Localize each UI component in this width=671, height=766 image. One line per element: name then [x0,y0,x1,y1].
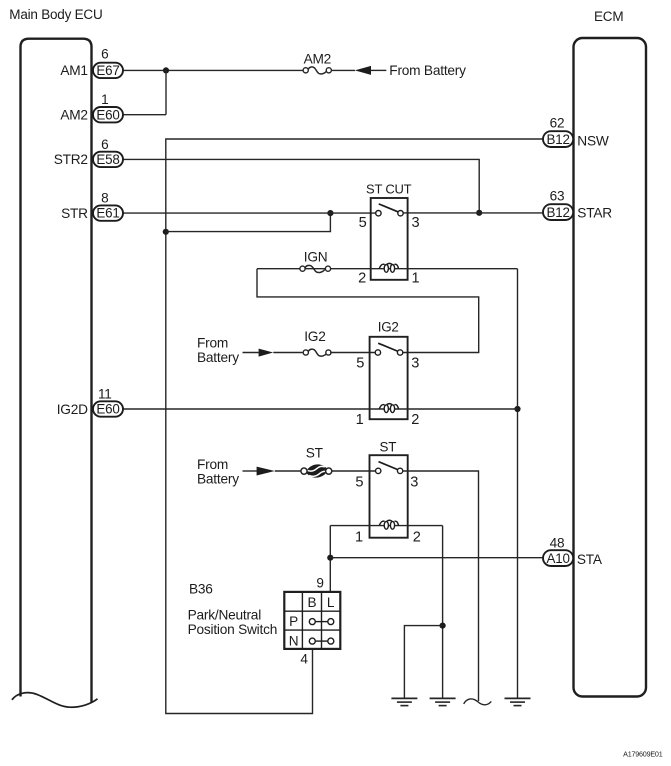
wire arrow to ST fusible link [275,470,301,472]
svg-text:Main Body ECU: Main Body ECU [9,7,102,22]
pin E60 (IG2D, terminal 11) [93,401,123,416]
relay ST contact pin 3 [397,468,402,473]
wire STR2 row from E58 to STAR line [123,159,479,212]
svg-text:B12: B12 [547,205,570,220]
wire arrow to IG2 fuse [273,352,302,354]
pin A10 (STA, terminal 48) [543,550,573,566]
wire STR row from E61 to ST CUT pin 5 [123,212,376,214]
svg-text:2: 2 [358,271,366,287]
block Main Body ECU [21,39,92,703]
coil of relay ST [370,520,408,529]
wire stub after arrow to From Battery text [371,69,387,71]
wire ST CUT coil pin1 drop to IG2D node and ground [517,269,519,698]
svg-text:B12: B12 [547,132,570,147]
svg-text:E58: E58 [96,152,119,167]
svg-text:48: 48 [550,536,565,551]
pin E61 (STR, terminal 8) [93,205,123,220]
junction dot STR branch [327,210,333,216]
wire IG2D row from E60 through IG2 coil to junction [123,408,518,410]
wire NSW row from ECM B12 [166,139,543,714]
svg-text:IGN: IGN [304,250,328,265]
svg-text:L: L [327,595,335,610]
svg-text:E67: E67 [96,63,119,78]
svg-text:5: 5 [359,215,367,231]
svg-text:2: 2 [413,530,421,546]
wire IGN feed loop to IG2 relay pin 3 [257,269,479,353]
svg-text:B36: B36 [189,582,213,597]
svg-text:Park/Neutral: Park/Neutral [188,608,262,623]
svg-text:5: 5 [355,475,363,491]
relay IG2 switch arm [378,343,398,351]
svg-text:E61: E61 [96,206,119,221]
svg-text:IG2: IG2 [378,320,399,335]
svg-text:1: 1 [355,530,363,546]
svg-text:A10: A10 [547,551,570,566]
ground (left of pair) [391,698,417,705]
relay ST switch arm [379,462,399,470]
relay IG2 contact pin 3 [397,350,402,355]
svg-text:62: 62 [550,115,565,130]
svg-text:8: 8 [101,191,108,206]
svg-text:IG2: IG2 [304,329,325,344]
fuse AM2 [303,67,331,74]
B36 grid lines [301,592,303,649]
svg-text:AM1: AM1 [60,63,87,78]
junction dot AM1/AM2 [163,67,169,73]
relay IG2 contact pin 5 [375,350,380,355]
svg-text:ST: ST [306,446,324,461]
wire from text to arrow (ST row) [243,470,258,472]
wire NSW branch jog to STR line [166,213,331,232]
wire from text to arrow (IG2 row) [243,352,259,354]
svg-text:ECM: ECM [594,9,623,24]
svg-text:6: 6 [101,47,108,62]
pin E67 (AM1, terminal 6) [93,63,123,78]
ground (right-most, on ST CUT coil drop) [505,698,531,705]
wire ST coil pin2 down to ground [442,526,444,698]
wire ST CUT pin 3 to ECM B12 STAR [403,212,543,214]
svg-text:From: From [197,457,228,472]
switch B36 Park/Neutral Position Switch [284,592,340,649]
wire AM2 row from E60 [123,114,166,116]
wire ground branch to left ground [404,626,442,698]
B36 contact row N [315,640,328,642]
block ECM [574,38,647,697]
relay ST CUT contact pin 5 [376,211,381,216]
wire AM1 row from E67 to AM2 fuse [123,69,305,71]
wire STA row to ECM A10 [330,557,543,559]
svg-text:9: 9 [316,576,323,591]
svg-text:11: 11 [98,386,112,401]
wire IG2 fuse to relay pin 5 [330,352,375,354]
svg-text:STA: STA [577,552,603,567]
svg-text:P: P [289,614,298,629]
wire ST relay pin 3 down to continuation squiggle [403,471,479,701]
junction dot IG2D node [514,406,520,412]
junction dot NSW branch [163,229,169,235]
svg-text:1: 1 [412,271,420,287]
arrow from battery (ST row, points right) [257,467,275,476]
svg-text:ST CUT: ST CUT [366,182,412,197]
arrow from battery (IG2 row, points right) [259,349,274,357]
svg-text:5: 5 [356,356,364,372]
pin E60 (AM2, terminal 1) [93,107,123,122]
wire ST coil row [330,525,369,527]
svg-text:STAR: STAR [577,206,612,221]
wavy tear at bottom of Main Body ECU block [12,693,98,708]
junction dot STA node [327,555,333,561]
wire from AM2 fuse to battery arrow [330,69,356,71]
svg-text:2: 2 [411,412,419,428]
coil of relay IG2 [379,404,398,413]
svg-text:From Battery: From Battery [389,63,466,78]
svg-text:Position Switch: Position Switch [188,622,278,637]
pin B12 (NSW, terminal 62) [543,131,573,147]
continuation squiggle (wire to starter) [464,699,492,705]
svg-text:AM2: AM2 [304,51,331,66]
pin E58 (STR2, terminal 6) [93,152,123,167]
fuse IGN [300,265,331,272]
B36 contact row P [315,621,328,623]
ground (right of pair) [430,698,456,705]
relay ST CUT [371,198,408,280]
svg-text:Battery: Battery [197,472,239,487]
svg-text:6: 6 [101,137,108,152]
junction dot STR2 joins STAR [476,210,482,216]
junction dot ground branch [440,623,446,629]
fuse IG2 [303,349,331,356]
svg-text:3: 3 [411,356,419,372]
arrow from battery (points left) [355,66,371,75]
svg-text:NSW: NSW [577,133,609,148]
svg-text:3: 3 [410,475,418,491]
svg-text:3: 3 [412,215,420,231]
relay IG2 [370,337,408,419]
svg-text:IG2D: IG2D [57,402,88,417]
svg-text:1: 1 [101,92,108,107]
svg-text:4: 4 [300,652,308,667]
svg-text:E60: E60 [96,402,119,417]
coil of relay ST CUT [379,263,398,272]
relay ST CUT switch arm [379,204,399,212]
svg-text:AM2: AM2 [60,108,87,123]
wire vertical AM1 to AM2 [165,70,167,114]
svg-text:A179609E01: A179609E01 [623,749,663,758]
relay ST CUT contact pin 3 [398,211,403,216]
svg-text:Battery: Battery [197,350,239,365]
wire ST link to relay pin 5 [332,470,376,472]
svg-text:63: 63 [550,188,565,203]
wire IGN fuse row into ST CUT coil and out to ground drop [257,268,518,270]
svg-text:E60: E60 [96,107,119,122]
relay ST [370,455,408,538]
svg-text:STR: STR [61,206,88,221]
svg-text:ST: ST [380,439,397,454]
svg-text:From: From [197,336,228,351]
wire ST coil pin1 down through STA node to B36 pin 9 [329,526,331,592]
relay ST contact pin 5 [376,468,381,473]
svg-text:B: B [307,595,316,610]
pin B12 (STAR, terminal 63) [543,204,573,220]
fusible link ST [301,464,332,477]
svg-text:STR2: STR2 [54,152,88,167]
svg-text:N: N [289,634,299,649]
svg-text:1: 1 [356,412,364,428]
